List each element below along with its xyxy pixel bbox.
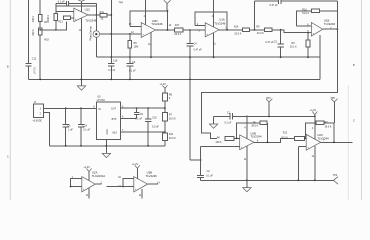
node ground rail C9	[129, 79, 131, 81]
wire R8 to R7	[164, 101, 166, 112]
op-amp U1A	[205, 18, 226, 37]
resistor box lower on input branch	[38, 28, 42, 35]
wire R9 to U1B plus	[272, 30, 312, 33]
resistor R11 20.0K	[162, 133, 176, 141]
svg-text:20.0 K: 20.0 K	[174, 33, 181, 36]
node section2 ground join	[200, 159, 202, 161]
wire U2C plus bias	[298, 146, 306, 180]
wire V- pin U2C	[314, 146, 316, 181]
svg-text:200 K: 200 K	[32, 16, 35, 23]
node U3B tie	[122, 186, 124, 188]
svg-text:C10: C10	[152, 116, 157, 119]
capacitor C5 1uF	[63, 108, 74, 146]
node ground rail R16 branch	[39, 79, 41, 81]
node C4 tap	[189, 29, 191, 31]
filter capacitor C2 0.47uF branch	[255, 0, 338, 30]
svg-text:1 uF: 1 uF	[68, 129, 73, 132]
capacitor C12	[25, 57, 36, 79]
feedback capacitor C11 0.1uF	[56, 1, 97, 6]
svg-text:C18: C18	[113, 59, 118, 62]
power arrow +1.2V section2	[310, 109, 318, 117]
svg-text:TLV2244: TLV2244	[250, 134, 262, 138]
wire V- pin U3B	[141, 189, 143, 199]
resistor R9 20.0K	[256, 26, 271, 35]
wire U2B plus bias	[201, 145, 240, 147]
svg-text:TLV2246: TLV2246	[146, 174, 158, 178]
wire feedback right vertical	[95, 3, 97, 15]
wire minus input U3D	[130, 25, 141, 27]
regulator U5 LT1761	[93, 95, 124, 139]
svg-text:100 K: 100 K	[215, 141, 222, 144]
node C3 tap	[280, 29, 282, 31]
wire photodiode to U3D plus	[100, 33, 142, 35]
connector J1	[32, 101, 43, 122]
node feedback TP5	[167, 10, 169, 12]
svg-text:200 K: 200 K	[47, 15, 50, 22]
wire U2A input tie	[71, 178, 82, 186]
svg-text:ADJ: ADJ	[112, 132, 117, 135]
node junction minus column	[55, 29, 57, 31]
svg-text:TLV2246: TLV2246	[324, 22, 336, 26]
wire output U1A	[219, 29, 242, 31]
resistor R11 10	[100, 11, 107, 21]
svg-text:TP4: TP4	[119, 1, 124, 4]
wire output U2B	[254, 138, 295, 142]
node rail C3	[280, 56, 282, 58]
wire vertical R15/R18 branch	[28, 0, 30, 63]
test point TP6	[330, 97, 337, 123]
svg-text:10M: 10M	[134, 46, 139, 49]
wire V- pin U2B	[246, 146, 248, 180]
resistor box upper on input branch	[38, 15, 42, 22]
wire U5 ADJ	[121, 131, 165, 133]
svg-text:0.1 uF: 0.1 uF	[129, 69, 136, 72]
ground rail top section	[29, 78, 320, 80]
op-amp U3D	[141, 19, 163, 38]
node photodiode wire R6	[129, 33, 131, 35]
svg-text:0.1 uF: 0.1 uF	[83, 129, 90, 132]
wire horizontal to R13	[40, 21, 66, 30]
feedback loop U1A	[195, 12, 227, 30]
svg-text:R11: R11	[169, 133, 174, 136]
ground symbol left	[77, 86, 85, 90]
sheet border right	[361, 0, 363, 200]
wire V- pin U2A	[88, 188, 90, 199]
wire R11 to TP4 node	[107, 14, 111, 16]
svg-text:39.0 K: 39.0 K	[251, 125, 258, 128]
svg-text:R11: R11	[100, 11, 105, 14]
wire V- pin U3D	[150, 32, 152, 57]
svg-text:39.0 K: 39.0 K	[281, 136, 288, 139]
wire V- pin U1A	[213, 33, 215, 57]
photodiode D1	[90, 15, 100, 57]
node output U3D	[167, 29, 169, 31]
capacitor C4 0.47uF	[187, 30, 203, 160]
svg-text:200 K: 200 K	[32, 29, 35, 36]
wire R7 to R11	[164, 121, 166, 133]
node rail TP4	[110, 56, 112, 58]
node photodiode wire TP4	[110, 33, 112, 35]
resistor R17 20.0K	[174, 24, 183, 36]
node ground rail C18	[110, 79, 112, 81]
ground symbol section2 rail	[243, 180, 251, 192]
svg-text:TLV2246: TLV2246	[85, 19, 97, 23]
capacitor C3 0.47uF	[265, 30, 283, 57]
svg-text:20.1 K: 20.1 K	[290, 45, 297, 48]
node output U2C	[333, 141, 335, 143]
resistor R8b bias U1B	[290, 32, 310, 58]
capacitor C1 0.1uF	[224, 111, 232, 124]
capacitor C10 5.0uF	[145, 108, 160, 146]
svg-text:TLC2201A: TLC2201A	[92, 174, 106, 178]
bias rail right part	[232, 115, 314, 117]
node output U1C	[96, 14, 98, 16]
wire V+ pin U3D	[144, 0, 146, 25]
fold line right	[347, 85, 349, 200]
op-amp U2C	[306, 133, 329, 150]
resistor R14 20.0K	[234, 26, 250, 36]
node rail C5	[65, 145, 67, 147]
wire J1 pin2 down	[44, 113, 50, 146]
node rail C13	[80, 145, 82, 147]
sheet border left	[9, 0, 11, 200]
svg-text:20.0 K: 20.0 K	[234, 32, 241, 35]
node C13 tap	[80, 107, 82, 109]
svg-text:R12: R12	[283, 132, 288, 135]
node filter cap tap	[254, 29, 256, 31]
svg-text:Photo Sensor: Photo Sensor	[90, 26, 93, 41]
svg-text:0.47 uF: 0.47 uF	[194, 48, 203, 51]
svg-text:R14: R14	[234, 26, 239, 29]
capacitor C9 0.1uF decoupling	[127, 57, 137, 79]
wire vertical R16 input branch	[39, 0, 41, 79]
svg-text:0.1 uF: 0.1 uF	[224, 122, 231, 125]
svg-text:5.0 uF: 5.0 uF	[152, 126, 159, 129]
node C5 tap	[65, 107, 67, 109]
svg-text:+1.2V: +1.2V	[84, 166, 91, 169]
feedback loop U2C	[305, 121, 335, 142]
ground rail section2	[201, 179, 334, 181]
svg-text:51.0 K: 51.0 K	[302, 12, 309, 15]
svg-text:TLV2246: TLV2246	[214, 22, 226, 26]
node output U2B	[267, 141, 269, 143]
power arrow +1.2V regulator	[160, 83, 168, 93]
node feedback U1A	[226, 29, 228, 31]
feedback loop U1B with R10	[296, 9, 337, 26]
power arrow +1.2V U3B	[132, 163, 140, 179]
node rail R9 bias	[307, 56, 309, 58]
wire U5 GND pin	[105, 140, 107, 154]
wire output U3D	[156, 29, 175, 31]
wire V- pin U1C to ground rail	[80, 18, 82, 86]
svg-text:LT1761: LT1761	[97, 99, 106, 102]
node rail U3D V-	[150, 56, 152, 58]
wire V+ pin U2B	[246, 116, 248, 138]
wire R12 to U2C minus	[304, 137, 306, 139]
resistor R6 10M	[128, 34, 138, 57]
capacitor C6 0.1uF bypass	[121, 108, 144, 121]
wire minus input U1C	[56, 10, 74, 12]
power arrow V+ U1C	[78, 0, 84, 12]
resistor R4 100K	[215, 136, 233, 144]
ground symbol regulator	[102, 153, 110, 157]
resistor box R16 on minus column	[54, 14, 58, 21]
wire R17 to U1A plus	[183, 29, 205, 31]
feedback wire lower	[56, 5, 97, 7]
bias rail section2	[214, 115, 230, 117]
node ground rail U1C V-	[80, 79, 82, 81]
capacitor C2 0.1uF section2	[197, 146, 213, 180]
svg-text:C: C	[353, 120, 355, 123]
wire output stub U3B	[148, 183, 158, 185]
svg-text:OUT: OUT	[111, 108, 117, 111]
wire U5 OUT	[121, 107, 165, 109]
svg-text:0.47 uF: 0.47 uF	[265, 41, 274, 44]
feedback loop U2B	[237, 123, 260, 138]
wire R4 to U2B minus	[234, 137, 240, 139]
svg-text:C13: C13	[83, 124, 88, 127]
wire top ground to section2	[190, 159, 201, 161]
test point TP3	[266, 97, 272, 117]
svg-text:0.47 uF: 0.47 uF	[270, 4, 279, 7]
wire V+ pin U2C	[314, 116, 316, 138]
feedback loop U3D	[130, 11, 167, 30]
node output U1B	[337, 28, 339, 30]
wire minus input U1B	[296, 25, 311, 27]
node U2B minus	[236, 138, 238, 140]
resistor R7 36.0K	[162, 112, 176, 121]
op-amp U1B	[311, 18, 335, 36]
svg-text:36.0 K: 36.0 K	[169, 117, 176, 120]
svg-text:C: C	[7, 156, 9, 159]
capacitor C13 0.1uF	[78, 108, 91, 146]
svg-text:39.0 K: 39.0 K	[325, 125, 332, 128]
svg-text:+3.6VDC: +3.6VDC	[32, 120, 42, 123]
upper mid rail	[96, 56, 320, 58]
wire output U1B	[323, 28, 338, 30]
wire V+ pin U1A	[213, 0, 215, 27]
svg-text:0.1 uF: 0.1 uF	[33, 67, 36, 74]
ground symbol section2 bias	[209, 116, 217, 128]
op-amp U2A unused	[82, 171, 105, 192]
node U2A tie	[70, 186, 72, 188]
svg-text:TP2: TP2	[333, 174, 338, 177]
node bias rail U2B V+	[246, 116, 248, 118]
svg-text:0.1 uF: 0.1 uF	[135, 118, 142, 121]
test point TP4 line	[110, 0, 112, 57]
svg-text:TLV2246: TLV2246	[151, 22, 163, 26]
node ADJ divider	[164, 131, 166, 133]
wire J1 pin1 to U5 IN	[44, 107, 97, 109]
rail end tie vertical	[319, 35, 321, 79]
node rail U2C V-	[314, 179, 316, 181]
svg-text:GND: GND	[106, 129, 109, 135]
node ground rail C4	[189, 79, 191, 81]
op-amp U1C	[74, 8, 97, 23]
wire minus input U1A	[195, 25, 205, 27]
svg-text:U1C: U1C	[85, 8, 91, 12]
node C6 tap	[136, 107, 138, 109]
wire R11 to gnd rail	[164, 141, 166, 146]
node rail C4	[189, 56, 191, 58]
test point TP5 arrow	[164, 0, 171, 11]
wire output U2C	[321, 141, 353, 143]
wire R5 to output	[266, 122, 268, 124]
svg-text:R13: R13	[58, 21, 63, 24]
svg-text:20.0 K: 20.0 K	[257, 32, 264, 35]
node junction input rail	[39, 29, 41, 31]
capacitor C18 0.1uF decoupling	[108, 57, 118, 79]
svg-text:R18: R18	[44, 39, 49, 42]
wire U3B tie stub left	[107, 186, 124, 188]
resistor R12 39.0K	[281, 132, 304, 141]
op-amp U3B unused	[134, 171, 157, 192]
node C10 tap	[147, 107, 149, 109]
wire minus node column	[55, 3, 57, 29]
wire U1B output down to section 2	[201, 1, 337, 138]
svg-text:C12: C12	[32, 57, 37, 60]
regulator ground rail	[50, 145, 165, 147]
svg-text:BYP: BYP	[112, 118, 117, 121]
wire between R14 R9	[249, 29, 264, 31]
svg-text:20.0 K: 20.0 K	[169, 137, 176, 140]
test point TP2 arrow left	[333, 174, 338, 184]
power arrow +1.2V U2A	[84, 166, 92, 181]
op-amp U2B	[240, 131, 262, 149]
node TP4 output	[110, 14, 112, 16]
svg-text:+1.2V: +1.2V	[310, 109, 317, 112]
svg-text:0.1 uF: 0.1 uF	[206, 174, 213, 177]
svg-text:R17: R17	[175, 24, 180, 27]
resistor R8 0	[162, 93, 172, 101]
node rail U1A V-	[213, 56, 215, 58]
node rail U2B plus hmm	[246, 179, 248, 181]
node rail R6	[129, 56, 131, 58]
svg-text:IN: IN	[98, 108, 101, 111]
svg-text:0.1 uF: 0.1 uF	[108, 69, 115, 72]
wire output U1C	[88, 14, 100, 16]
wire U3B input tie	[123, 178, 134, 186]
resistor R13	[58, 16, 74, 24]
resistor R5 39.0K	[251, 121, 267, 128]
wire output stub U2A	[95, 183, 101, 185]
node rail U5 GND	[105, 145, 107, 147]
node OUT to divider	[164, 107, 166, 109]
node rail C10	[147, 145, 149, 147]
node rail U2C plus	[297, 179, 299, 181]
